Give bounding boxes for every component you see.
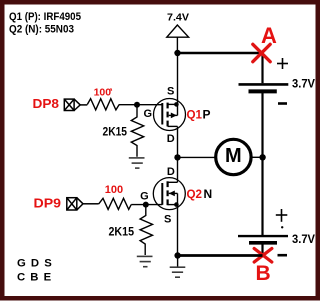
svg-text:S: S	[167, 86, 174, 98]
svg-text:Q2: Q2	[187, 187, 203, 201]
svg-text:D: D	[167, 166, 175, 178]
svg-text:2K15: 2K15	[103, 125, 128, 139]
Q1 source pin wire	[177, 53, 179, 115]
ground GND3 (Q2 gate resistor)	[137, 256, 153, 266]
wire motor left	[178, 156, 217, 158]
wire right to battery1	[261, 53, 263, 83]
transistor Q1 body circle	[154, 99, 186, 131]
svg-text:Q2 (N): 55N03: Q2 (N): 55N03	[9, 23, 74, 35]
Q1 drain pin wire	[177, 126, 179, 157]
svg-text:D: D	[167, 133, 175, 145]
resistor R2 2K15	[131, 105, 143, 157]
svg-text:B: B	[256, 262, 271, 285]
stray dot below plus	[281, 226, 283, 228]
node junction top	[174, 50, 180, 56]
battery BT1 minus	[278, 102, 287, 105]
svg-text:S: S	[164, 214, 171, 226]
wire motor right	[251, 156, 263, 158]
Q2 gate bar	[161, 183, 163, 205]
Q1 body tab with arrow	[169, 114, 178, 116]
wire right middle	[261, 93, 263, 235]
Q2 source tab	[168, 204, 178, 206]
svg-text:G: G	[144, 108, 153, 120]
Q1 source tab	[168, 103, 178, 105]
battery BT2 minus	[278, 254, 288, 257]
resistor R4 2K15	[140, 205, 152, 255]
battery BT2 plus	[276, 209, 288, 222]
ground GND2 (Q1 gate resistor)	[129, 158, 145, 168]
svg-text:A: A	[261, 23, 277, 48]
ground GND1 (bottom rail)	[170, 256, 186, 278]
node Q1 gate junction	[134, 102, 140, 108]
battery BT1 plus	[277, 58, 288, 69]
Q2 body tab with arrow	[169, 192, 178, 194]
node bottom junction	[174, 252, 180, 258]
svg-text:Q1: Q1	[187, 107, 203, 121]
battery BT1	[239, 83, 289, 86]
svg-text:M: M	[225, 145, 242, 167]
svg-text:G: G	[140, 190, 149, 202]
node motor junction	[259, 154, 265, 160]
wire bottom rail	[178, 254, 263, 257]
svg-text:3.7V: 3.7V	[292, 234, 315, 246]
Q2 drain pin wire	[177, 157, 179, 182]
node Q1 drain junction	[174, 154, 180, 160]
Q2 channel segments	[167, 181, 169, 205]
svg-text:DP9: DP9	[34, 196, 62, 210]
svg-text:C B E: C B E	[17, 272, 52, 284]
Q1 channel segments	[167, 103, 169, 127]
svg-text:3.7V: 3.7V	[292, 78, 315, 90]
wire DP9 gate	[131, 204, 162, 206]
Q2 drain tab	[168, 181, 178, 183]
X mark at A	[253, 44, 270, 61]
Q1 gate bar	[161, 103, 163, 125]
svg-text:100: 100	[94, 86, 112, 98]
X mark at B	[254, 249, 272, 263]
svg-text:7.4V: 7.4V	[167, 12, 189, 24]
svg-text:Q1 (P): IRF4905: Q1 (P): IRF4905	[9, 11, 81, 23]
wire power stub	[176, 37, 178, 52]
node Q2 gate junction	[143, 202, 149, 208]
svg-text:P: P	[203, 107, 211, 121]
motor M1	[216, 139, 251, 174]
wire top rail	[178, 52, 263, 55]
Q1 drain tab	[168, 125, 178, 127]
connector DP8	[64, 99, 87, 110]
connector DP9	[67, 198, 99, 210]
Q2 source pin wire	[177, 193, 179, 255]
svg-text:N: N	[204, 187, 213, 201]
resistor R3 100	[99, 198, 132, 209]
transistor Q2 body circle	[153, 178, 185, 210]
svg-text:2K15: 2K15	[109, 224, 135, 238]
battery BT2	[238, 235, 288, 237]
svg-text:DP8: DP8	[33, 97, 60, 111]
svg-text:100: 100	[105, 184, 123, 196]
wire battery2 to bottom rail	[261, 244, 263, 255]
wire DP8 gate	[119, 104, 162, 106]
power symbol VCC triangle	[167, 25, 189, 37]
resistor R1 100	[87, 99, 119, 110]
svg-text:G D S: G D S	[17, 257, 53, 269]
